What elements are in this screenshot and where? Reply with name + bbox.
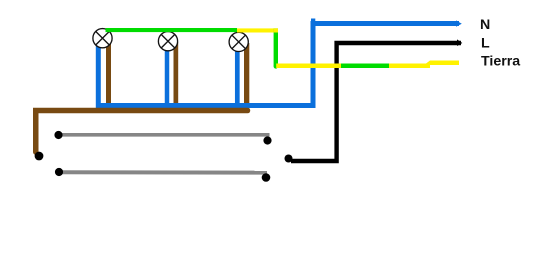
svg-text:Tierra: Tierra (481, 54, 520, 70)
svg-text:L: L (481, 36, 490, 52)
svg-text:N: N (480, 17, 490, 33)
